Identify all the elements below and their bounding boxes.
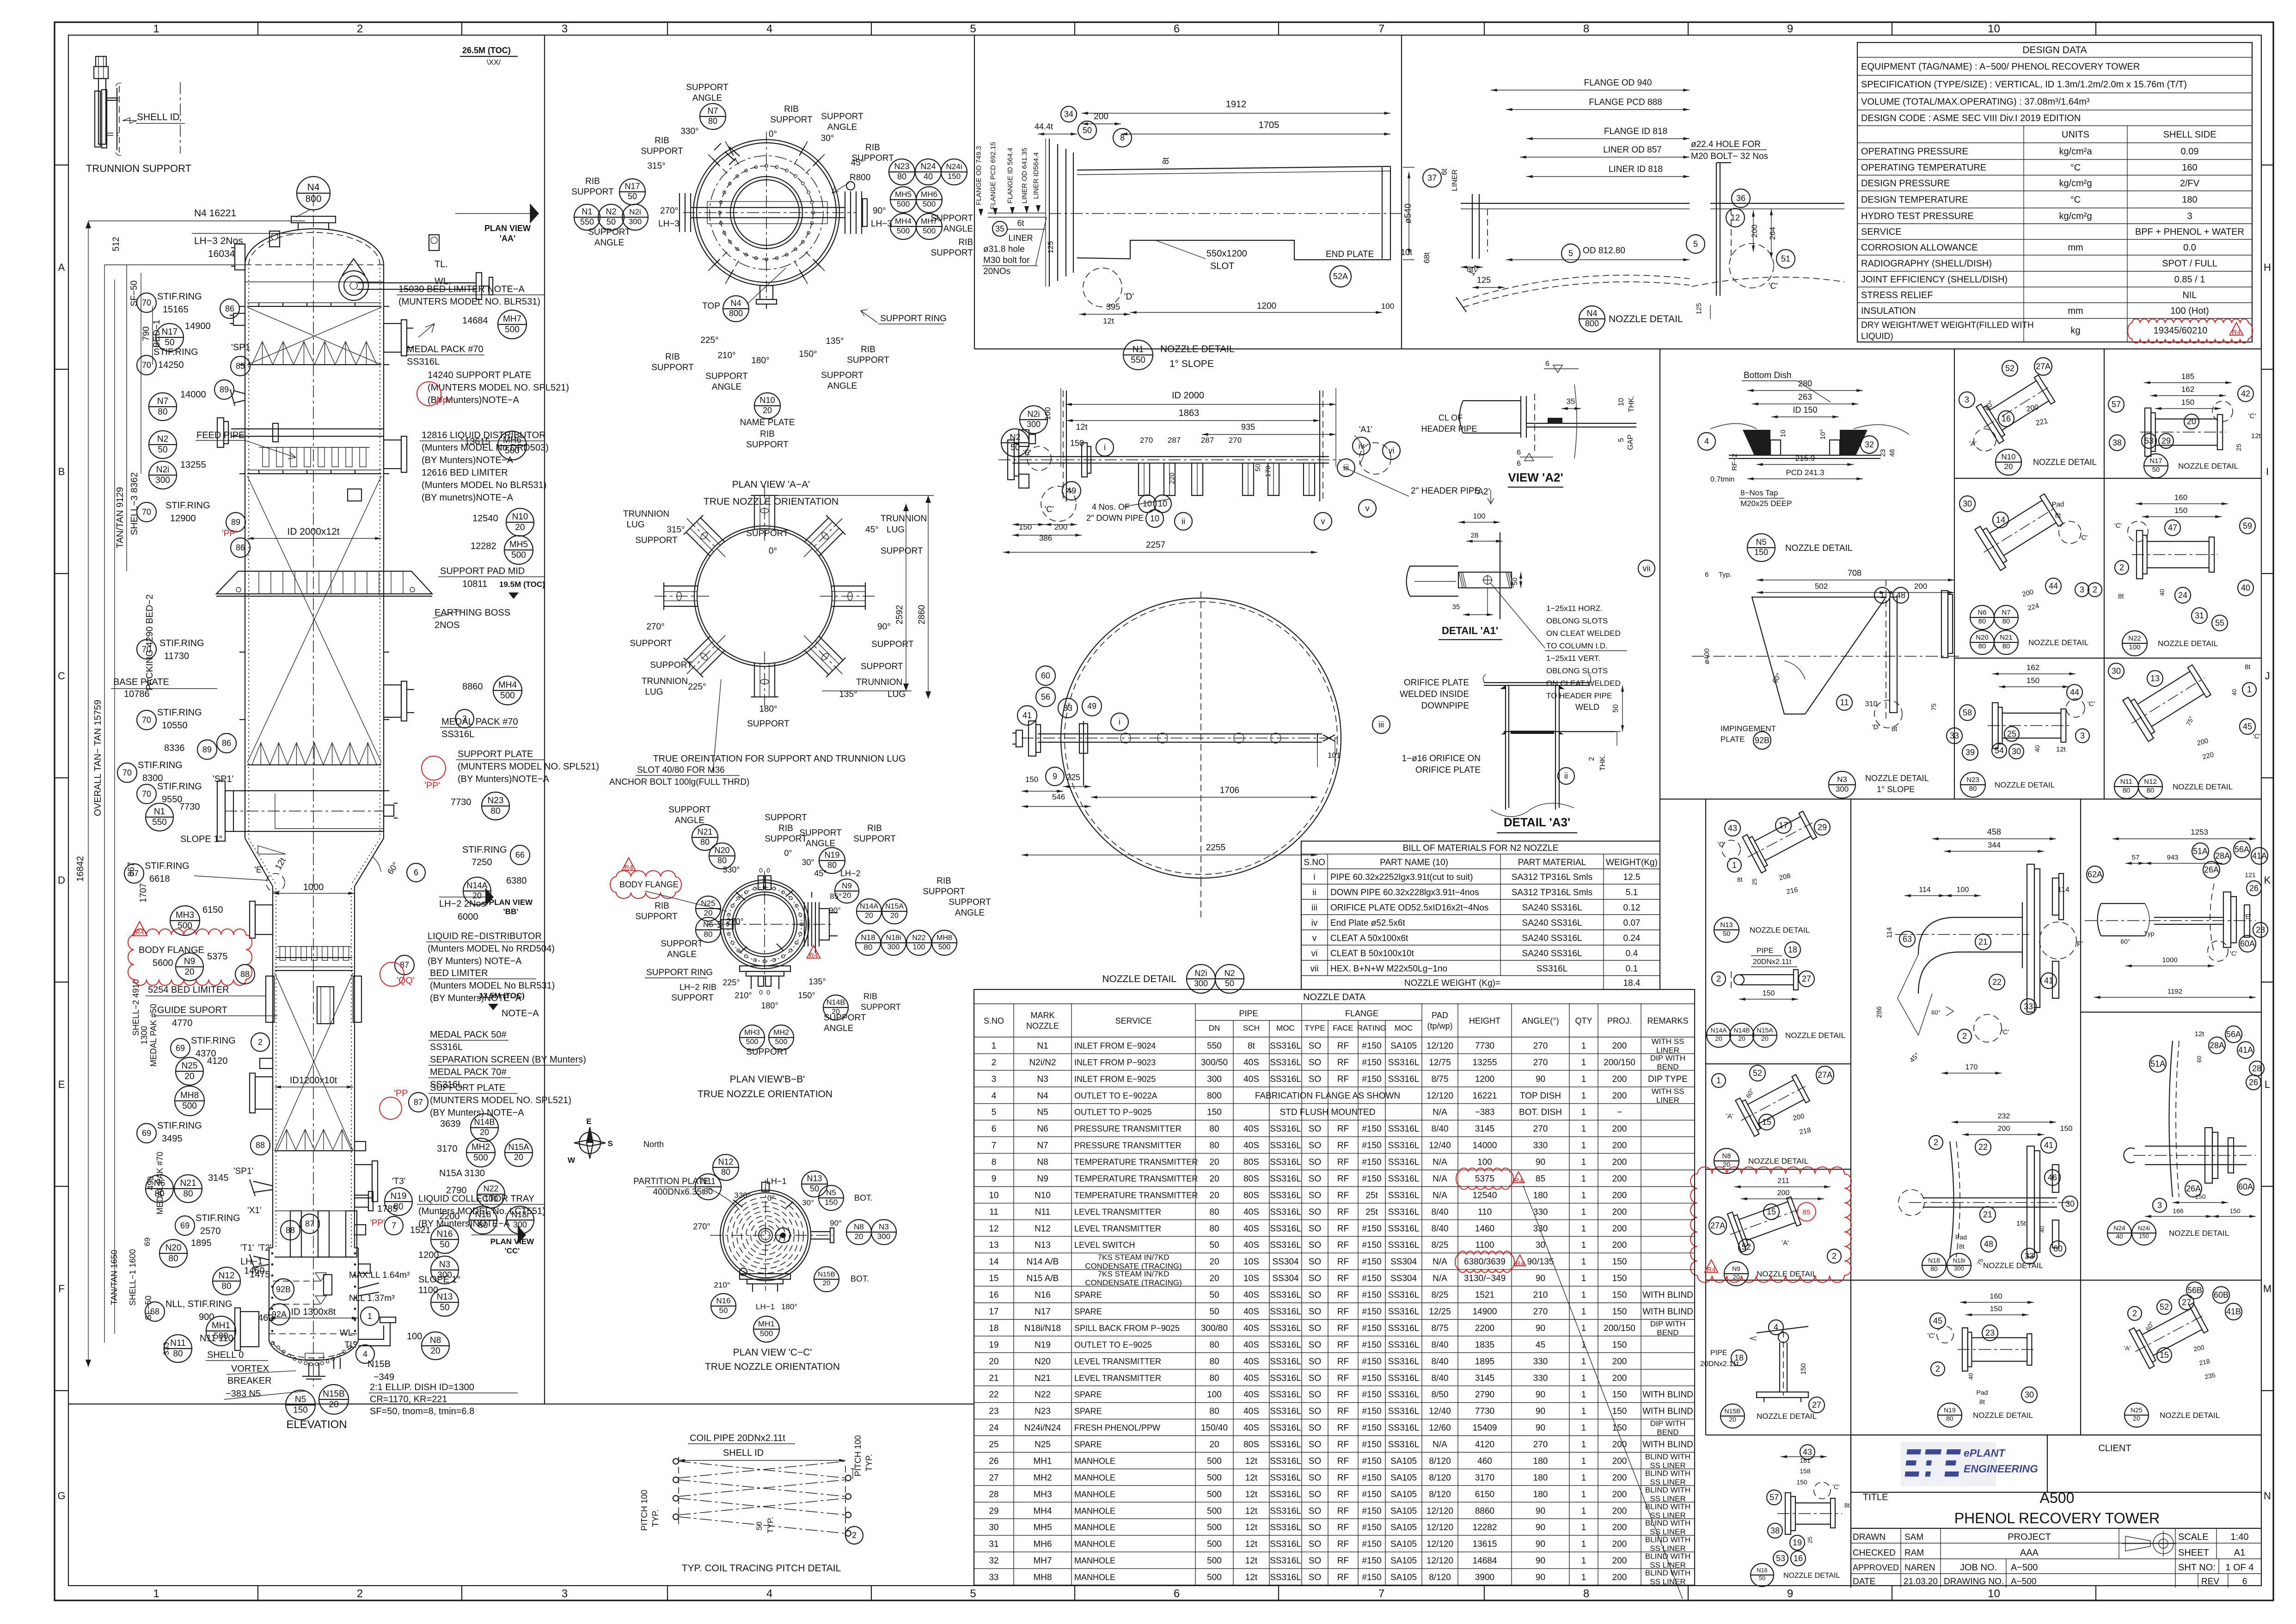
svg-text:vi: vi xyxy=(1389,446,1395,455)
svg-text:10786: 10786 xyxy=(124,689,150,699)
svg-text:B: B xyxy=(58,466,65,477)
svg-text:RADIOGRAPHY (SHELL/DISH): RADIOGRAPHY (SHELL/DISH) xyxy=(1861,259,1992,269)
svg-text:PLAN VIEW'B−B': PLAN VIEW'B−B' xyxy=(730,1074,805,1085)
svg-text:45: 45 xyxy=(1536,1340,1545,1350)
svg-text:180°: 180° xyxy=(761,1001,778,1010)
svg-text:N6: N6 xyxy=(1978,609,1986,617)
svg-text:WL.: WL. xyxy=(340,1328,355,1338)
svg-text:1835: 1835 xyxy=(1475,1340,1494,1350)
svg-text:2860: 2860 xyxy=(917,605,927,624)
svg-text:92B: 92B xyxy=(276,1285,291,1294)
svg-text:#150: #150 xyxy=(1362,1274,1381,1283)
svg-text:ANCHOR BOLT 100lg(FULL THRD: ANCHOR BOLT 100lg(FULL THRD) xyxy=(609,777,749,787)
svg-text:40: 40 xyxy=(2241,583,2250,592)
svg-text:(Munters MODEL No RRD504): (Munters MODEL No RRD504) xyxy=(428,944,555,954)
svg-text:0°: 0° xyxy=(769,129,777,139)
svg-text:3495: 3495 xyxy=(162,1134,183,1144)
svg-text:MH5: MH5 xyxy=(1033,1523,1052,1532)
plan view BB flag xyxy=(485,888,494,906)
svg-text:330°: 330° xyxy=(722,865,740,874)
svg-text:SUPPORT RING: SUPPORT RING xyxy=(646,968,713,977)
svg-text:8336: 8336 xyxy=(164,743,185,753)
svg-text:200: 200 xyxy=(1054,523,1067,531)
svg-text:160: 160 xyxy=(1990,1293,2002,1300)
svg-text:'SP1': 'SP1' xyxy=(233,1166,253,1176)
svg-text:'C': 'C' xyxy=(2253,733,2261,740)
svg-text:RIB: RIB xyxy=(937,876,951,886)
svg-text:SS316L: SS316L xyxy=(1388,1058,1420,1068)
svg-text:1000: 1000 xyxy=(2162,956,2177,964)
svg-text:End Plate ø52.5x6t: End Plate ø52.5x6t xyxy=(1330,918,1405,928)
svg-text:12/60: 12/60 xyxy=(1429,1423,1451,1433)
svg-text:'C': 'C' xyxy=(2080,534,2088,542)
plan A-A stub at 330 xyxy=(714,143,740,165)
svg-text:N4: N4 xyxy=(730,299,741,308)
svg-text:3: 3 xyxy=(2187,211,2192,221)
svg-text:RF: RF xyxy=(1337,1224,1349,1233)
svg-text:SUPPORT: SUPPORT xyxy=(747,719,790,729)
svg-text:26A: 26A xyxy=(2186,1184,2201,1193)
svg-text:#150: #150 xyxy=(1362,1058,1381,1068)
svg-text:200: 200 xyxy=(1612,1523,1627,1532)
svg-text:SA105: SA105 xyxy=(1390,1523,1417,1532)
svg-text:APPROVED: APPROVED xyxy=(1853,1563,1899,1572)
svg-text:NOZZLE DETAIL: NOZZLE DETAIL xyxy=(1785,1031,1845,1040)
svg-text:200: 200 xyxy=(1750,225,1759,238)
svg-text:NOZZLE: NOZZLE xyxy=(1026,1021,1059,1031)
svg-text:1: 1 xyxy=(1581,1290,1586,1300)
svg-text:N8: N8 xyxy=(430,1336,441,1345)
svg-text:'SP1: 'SP1 xyxy=(231,342,251,353)
svg-text:EARTHING BOSS: EARTHING BOSS xyxy=(435,608,510,618)
svg-text:9: 9 xyxy=(1787,23,1793,35)
svg-text:LH−1: LH−1 xyxy=(756,1302,775,1311)
svg-text:6: 6 xyxy=(1174,1587,1180,1600)
plan B-B bottom manhole stack xyxy=(740,966,790,971)
svg-text:SO: SO xyxy=(1309,1124,1321,1134)
lifting lug right on head xyxy=(429,235,439,250)
svg-text:0.12: 0.12 xyxy=(1623,903,1641,913)
svg-text:LINER: LINER xyxy=(1451,169,1459,191)
svg-text:SS316L: SS316L xyxy=(1388,1390,1420,1400)
svg-text:100: 100 xyxy=(1473,513,1486,520)
svg-text:SS316L: SS316L xyxy=(1270,1141,1301,1151)
svg-text:N20: N20 xyxy=(165,1243,182,1253)
svg-text:SUPPORT: SUPPORT xyxy=(853,834,896,844)
svg-text:100: 100 xyxy=(1043,407,1052,420)
svg-text:56A: 56A xyxy=(2226,1030,2241,1039)
svg-text:R4: R4 xyxy=(1515,1260,1524,1268)
svg-text:40: 40 xyxy=(2039,1226,2045,1233)
svg-text:500: 500 xyxy=(897,226,910,235)
svg-text:SUPPORT: SUPPORT xyxy=(650,660,692,670)
manhole MH8 left xyxy=(255,1077,273,1109)
svg-text:N17: N17 xyxy=(2149,457,2162,465)
trunnion support beam 135deg xyxy=(804,650,828,674)
svg-text:STIF.RING: STIF.RING xyxy=(157,708,202,718)
svg-text:1: 1 xyxy=(1581,1490,1586,1499)
svg-text:Typ: Typ xyxy=(2144,930,2155,937)
svg-text:1: 1 xyxy=(1581,1523,1586,1532)
svg-text:200: 200 xyxy=(1612,1473,1627,1483)
svg-text:'C': 'C' xyxy=(2114,522,2122,530)
svg-text:1−ø16 ORIFICE ON: 1−ø16 ORIFICE ON xyxy=(1402,754,1481,763)
svg-text:0.85 / 1: 0.85 / 1 xyxy=(2174,275,2205,285)
svg-text:WELD: WELD xyxy=(1575,702,1599,712)
svg-text:SO: SO xyxy=(1309,1539,1321,1549)
svg-text:27A: 27A xyxy=(1710,1221,1725,1230)
svg-text:14240 SUPPORT PLATE: 14240 SUPPORT PLATE xyxy=(428,370,532,380)
svg-text:80: 80 xyxy=(1209,1407,1219,1416)
svg-text:SUPPORT: SUPPORT xyxy=(671,993,714,1003)
svg-text:MH4: MH4 xyxy=(895,217,912,226)
svg-text:N25: N25 xyxy=(1035,1440,1051,1450)
svg-text:3: 3 xyxy=(2157,1201,2162,1210)
svg-text:N18: N18 xyxy=(1928,1257,1940,1264)
svg-text:N23: N23 xyxy=(1966,776,1979,784)
svg-text:80: 80 xyxy=(173,1349,183,1359)
cell N10 detail xyxy=(1972,368,2061,446)
svg-text:460: 460 xyxy=(1477,1457,1492,1466)
svg-text:SUPPORT: SUPPORT xyxy=(746,440,789,450)
svg-text:N12: N12 xyxy=(718,1157,733,1166)
svg-text:N/A: N/A xyxy=(1433,1108,1447,1117)
svg-text:6: 6 xyxy=(992,1124,997,1134)
svg-text:N3: N3 xyxy=(439,1260,450,1270)
svg-text:500: 500 xyxy=(897,200,910,208)
svg-text:TEMPERATURE TRANSMITTER: TEMPERATURE TRANSMITTER xyxy=(1074,1158,1198,1167)
svg-text:SUPPORT: SUPPORT xyxy=(661,939,703,949)
svg-text:40: 40 xyxy=(1967,1373,1974,1380)
svg-text:8/40: 8/40 xyxy=(1432,1124,1449,1134)
svg-text:BOT.: BOT. xyxy=(851,1274,869,1283)
svg-text:A−500: A−500 xyxy=(2011,1577,2036,1587)
svg-text:OUTLET TO E−9025: OUTLET TO E−9025 xyxy=(1074,1340,1152,1349)
svg-text:MH6: MH6 xyxy=(1033,1539,1052,1549)
svg-text:SO: SO xyxy=(1309,1523,1321,1532)
svg-text:ANGLE: ANGLE xyxy=(692,93,722,103)
svg-text:40S: 40S xyxy=(1243,1357,1259,1367)
svg-text:OVERALL TAN− TAN 15759: OVERALL TAN− TAN 15759 xyxy=(93,700,103,816)
svg-text:SF−50: SF−50 xyxy=(129,281,139,307)
svg-text:53: 53 xyxy=(2144,436,2154,446)
svg-text:CORROSION ALLOWANCE: CORROSION ALLOWANCE xyxy=(1861,243,1978,253)
svg-text:158: 158 xyxy=(1800,1467,1811,1475)
svg-text:135°: 135° xyxy=(826,336,844,346)
svg-text:28: 28 xyxy=(2256,925,2265,934)
svg-text:N19: N19 xyxy=(1944,1406,1956,1414)
svg-text:20: 20 xyxy=(1209,1440,1219,1450)
svg-text:STIF.RING: STIF.RING xyxy=(165,501,210,511)
svg-text:180: 180 xyxy=(1533,1473,1548,1483)
svg-text:N7: N7 xyxy=(157,397,168,406)
svg-text:8860: 8860 xyxy=(1475,1506,1494,1516)
svg-text:mm: mm xyxy=(2068,243,2083,253)
svg-text:80S: 80S xyxy=(1243,1174,1259,1184)
svg-text:45°: 45° xyxy=(865,525,879,535)
svg-text:20: 20 xyxy=(763,406,772,415)
svg-text:53: 53 xyxy=(1776,1554,1785,1563)
svg-text:RF: RF xyxy=(1337,1307,1349,1317)
svg-text:180: 180 xyxy=(2182,195,2197,205)
svg-text:85: 85 xyxy=(1536,1174,1545,1184)
svg-text:PLAN VIEW 'C−C': PLAN VIEW 'C−C' xyxy=(733,1347,812,1358)
svg-text:2: 2 xyxy=(992,1058,997,1068)
svg-text:185: 185 xyxy=(2181,372,2194,381)
svg-text:STIF.RING: STIF.RING xyxy=(157,781,202,792)
N1 left flange stack xyxy=(1049,139,1050,287)
svg-text:#150: #150 xyxy=(1362,1440,1381,1450)
svg-text:90: 90 xyxy=(1536,1324,1545,1333)
svg-text:70: 70 xyxy=(142,789,151,799)
svg-text:24: 24 xyxy=(2178,591,2187,600)
dim ID 1300x8t xyxy=(269,1318,358,1319)
svg-text:30: 30 xyxy=(2112,666,2121,676)
svg-text:LINER ID564.4: LINER ID564.4 xyxy=(1032,153,1040,199)
svg-text:'AA': 'AA' xyxy=(500,234,516,243)
svg-text:943: 943 xyxy=(2167,854,2178,861)
svg-text:68: 68 xyxy=(150,1307,159,1316)
svg-text:5600: 5600 xyxy=(153,958,173,968)
svg-text:2: 2 xyxy=(1934,1138,1938,1147)
svg-text:N2i: N2i xyxy=(156,465,170,475)
svg-text:SUPPORT PAD MID: SUPPORT PAD MID xyxy=(440,566,525,576)
svg-text:(BY Munters) NOTE−A: (BY Munters) NOTE−A xyxy=(428,956,522,966)
svg-text:86: 86 xyxy=(236,543,245,552)
svg-text:N8: N8 xyxy=(854,1222,864,1231)
svg-text:CLIENT: CLIENT xyxy=(2098,1443,2131,1453)
svg-text:200: 200 xyxy=(1612,1041,1627,1051)
svg-text:LINER: LINER xyxy=(1008,233,1033,243)
svg-text:PIPE: PIPE xyxy=(1710,1349,1727,1357)
svg-text:19.5M (TOC): 19.5M (TOC) xyxy=(499,580,545,589)
svg-text:26: 26 xyxy=(989,1457,998,1466)
svg-text:8: 8 xyxy=(1583,1587,1589,1600)
svg-text:BLIND WITH: BLIND WITH xyxy=(1645,1552,1690,1561)
svg-text:N2i: N2i xyxy=(629,208,641,216)
svg-text:270: 270 xyxy=(1533,1440,1548,1450)
svg-text:29: 29 xyxy=(2161,436,2171,446)
bottom nozzle N5 stub xyxy=(308,1362,309,1376)
svg-text:SUPPORT PLATE: SUPPORT PLATE xyxy=(458,749,533,759)
ePlant Engineering logo xyxy=(1901,1442,1996,1486)
svg-text:N8: N8 xyxy=(1722,1152,1731,1160)
svg-text:26A: 26A xyxy=(2204,865,2219,874)
N2 wall sections xyxy=(1066,391,1067,501)
svg-text:MH3: MH3 xyxy=(744,1029,760,1037)
lifting lug LH-3 left on head xyxy=(269,231,280,247)
svg-text:150: 150 xyxy=(2229,1207,2241,1215)
svg-text:SO: SO xyxy=(1309,1556,1321,1566)
svg-text:15: 15 xyxy=(989,1274,998,1283)
svg-text:NOZZLE DETAIL: NOZZLE DETAIL xyxy=(2158,639,2218,648)
svg-text:SO: SO xyxy=(1309,1440,1321,1450)
svg-text:5: 5 xyxy=(1617,438,1625,442)
svg-text:N/A: N/A xyxy=(1433,1158,1447,1167)
svg-text:MANHOLE: MANHOLE xyxy=(1074,1457,1115,1466)
svg-text:MANHOLE: MANHOLE xyxy=(1074,1506,1115,1515)
red cloud body flange at B-B xyxy=(610,871,681,898)
svg-text:15030 BED LIMITER NOTE−A: 15030 BED LIMITER NOTE−A xyxy=(398,284,525,294)
svg-text:NOZZLE DETAIL: NOZZLE DETAIL xyxy=(2033,458,2097,467)
svg-text:30: 30 xyxy=(1963,499,1972,508)
svg-text:REV: REV xyxy=(2201,1577,2219,1587)
svg-text:1: 1 xyxy=(1581,1224,1586,1233)
svg-text:150: 150 xyxy=(1612,1390,1627,1400)
svg-text:48: 48 xyxy=(1896,591,1905,600)
svg-text:ENGINEERING: ENGINEERING xyxy=(1964,1463,2038,1475)
svg-text:150: 150 xyxy=(1763,989,1775,997)
svg-text:8t: 8t xyxy=(2118,592,2124,600)
svg-text:kg/cm²a: kg/cm²a xyxy=(2059,147,2092,157)
lifting lug LH-1 left xyxy=(250,1254,269,1271)
svg-text:59: 59 xyxy=(2243,521,2252,531)
svg-text:40S: 40S xyxy=(1243,1141,1259,1151)
svg-text:8/120: 8/120 xyxy=(1429,1490,1451,1499)
svg-text:'PP': 'PP' xyxy=(370,1218,385,1228)
svg-text:PLAN VIEW: PLAN VIEW xyxy=(490,1237,534,1246)
svg-text:RF: RF xyxy=(1337,1556,1349,1566)
svg-text:1895: 1895 xyxy=(1475,1357,1494,1367)
svg-text:NIL: NIL xyxy=(2182,290,2197,300)
svg-text:CLEAT A 50x100x6t: CLEAT A 50x100x6t xyxy=(1330,934,1408,943)
svg-text:5: 5 xyxy=(970,1587,976,1600)
svg-text:BEND: BEND xyxy=(1657,1428,1678,1437)
svg-text:'X1': 'X1' xyxy=(247,1206,262,1215)
svg-text:SLOPE 1°: SLOPE 1° xyxy=(180,834,222,844)
svg-text:MH4: MH4 xyxy=(1033,1506,1052,1516)
svg-text:90: 90 xyxy=(1536,1423,1545,1433)
svg-text:(tp/wp): (tp/wp) xyxy=(1427,1021,1452,1031)
svg-text:2NOS: 2NOS xyxy=(435,620,459,630)
svg-text:12900: 12900 xyxy=(170,513,196,524)
svg-text:BLIND WITH: BLIND WITH xyxy=(1645,1569,1690,1577)
svg-text:15: 15 xyxy=(2160,1350,2169,1360)
svg-text:90: 90 xyxy=(1536,1158,1545,1167)
svg-text:2: 2 xyxy=(357,1587,363,1600)
nozzle stub N17 left xyxy=(233,313,245,325)
cell N18 elbow detail xyxy=(1932,838,2056,839)
svg-text:INLET FROM P−9023: INLET FROM P−9023 xyxy=(1074,1058,1156,1067)
svg-text:80: 80 xyxy=(2002,617,2010,625)
svg-text:16: 16 xyxy=(989,1290,998,1300)
svg-text:SO: SO xyxy=(1309,1041,1321,1051)
svg-text:2/FV: 2/FV xyxy=(2180,178,2200,189)
svg-text:'A': 'A' xyxy=(1782,1239,1789,1247)
svg-text:3: 3 xyxy=(2080,731,2085,740)
upper big cross bracing xyxy=(247,476,381,763)
svg-text:46: 46 xyxy=(2048,1173,2057,1182)
svg-text:N/A: N/A xyxy=(1433,1191,1447,1200)
cell N19 detail xyxy=(1960,1302,2034,1303)
svg-text:END PLATE: END PLATE xyxy=(1326,250,1374,259)
svg-text:PLATE: PLATE xyxy=(1720,735,1745,744)
plan view C-C xyxy=(720,1190,811,1281)
svg-text:N15B: N15B xyxy=(818,1270,835,1278)
svg-text:10: 10 xyxy=(989,1191,998,1200)
svg-text:MEDAL PACK 50#: MEDAL PACK 50# xyxy=(430,1030,507,1040)
svg-text:90/135: 90/135 xyxy=(1527,1257,1554,1267)
manhole MH6 right xyxy=(384,440,401,469)
svg-text:150: 150 xyxy=(1207,1108,1222,1117)
svg-text:3900: 3900 xyxy=(1475,1573,1494,1582)
svg-text:20: 20 xyxy=(1209,1257,1219,1267)
svg-text:1: 1 xyxy=(153,1587,159,1600)
svg-text:N10: N10 xyxy=(2001,452,2015,461)
cell N25 detail xyxy=(2186,1282,2203,1299)
svg-text:iv: iv xyxy=(1311,918,1318,928)
svg-text:NOZZLE DETAIL: NOZZLE DETAIL xyxy=(1750,926,1810,934)
svg-text:20: 20 xyxy=(515,523,525,532)
svg-text:N4: N4 xyxy=(1037,1091,1048,1101)
svg-text:150: 150 xyxy=(1019,523,1032,531)
svg-text:27: 27 xyxy=(1802,974,1811,983)
svg-text:20: 20 xyxy=(1738,1035,1745,1042)
svg-text:SS316L: SS316L xyxy=(1270,1457,1301,1466)
svg-text:200: 200 xyxy=(1612,1174,1627,1184)
svg-text:WITH SS: WITH SS xyxy=(1652,1037,1684,1046)
svg-text:SHT NO:: SHT NO: xyxy=(2178,1563,2216,1573)
svg-text:M20 BOLT− 32 Nos: M20 BOLT− 32 Nos xyxy=(1691,152,1768,161)
svg-text:DETAIL 'A3': DETAIL 'A3' xyxy=(1504,815,1570,829)
svg-text:44: 44 xyxy=(2049,581,2058,591)
svg-text:BPF + PHENOL + WATER: BPF + PHENOL + WATER xyxy=(2135,227,2244,237)
svg-text:DATE: DATE xyxy=(1853,1577,1875,1587)
svg-text:SS LINER: SS LINER xyxy=(1650,1577,1685,1586)
svg-text:315°: 315° xyxy=(647,161,665,171)
svg-text:50: 50 xyxy=(440,1240,449,1250)
plan A-A bottom stub and name plate xyxy=(760,286,773,299)
cell impingement plate detail xyxy=(1757,580,1954,580)
svg-text:50: 50 xyxy=(158,445,167,455)
svg-text:DETAIL 'A1': DETAIL 'A1' xyxy=(1442,625,1498,636)
svg-text:80: 80 xyxy=(897,172,906,181)
svg-text:800: 800 xyxy=(1585,319,1599,328)
svg-text:°C: °C xyxy=(2070,163,2081,173)
svg-text:SUPPORT: SUPPORT xyxy=(824,1013,866,1023)
svg-text:N1: N1 xyxy=(1133,345,1144,354)
svg-text:NAREN: NAREN xyxy=(1904,1563,1935,1573)
svg-text:A−500: A−500 xyxy=(2011,1563,2038,1573)
svg-text:10S: 10S xyxy=(1243,1274,1259,1283)
svg-text:N25: N25 xyxy=(701,899,715,908)
svg-text:546: 546 xyxy=(1052,793,1065,801)
svg-text:N11: N11 xyxy=(170,1338,185,1348)
svg-text:mm: mm xyxy=(2068,306,2083,316)
svg-text:39: 39 xyxy=(1965,748,1975,757)
svg-text:TRUNNION: TRUNNION xyxy=(623,509,669,519)
vortex breaker xyxy=(305,1353,324,1360)
svg-text:SS316L: SS316L xyxy=(1388,1357,1420,1367)
svg-text:North: North xyxy=(643,1140,664,1149)
svg-text:19: 19 xyxy=(1793,1538,1802,1547)
bed limiter 12616 xyxy=(247,473,381,474)
svg-text:N1: N1 xyxy=(582,207,592,216)
svg-text:550: 550 xyxy=(1131,355,1145,365)
liquid collector tray channels xyxy=(290,1211,301,1257)
svg-text:N2: N2 xyxy=(157,434,168,444)
svg-text:MANHOLE: MANHOLE xyxy=(1074,1573,1115,1582)
nozzle N8 right elbow xyxy=(358,1323,390,1346)
svg-text:−: − xyxy=(1617,1108,1622,1117)
svg-text:1 OF 4: 1 OF 4 xyxy=(2225,1563,2253,1573)
svg-text:8t: 8t xyxy=(1959,1243,1965,1250)
svg-text:N12: N12 xyxy=(2144,778,2157,786)
svg-text:SO: SO xyxy=(1309,1290,1321,1300)
svg-text:20: 20 xyxy=(2187,417,2196,426)
svg-text:ø22.4 HOLE FOR: ø22.4 HOLE FOR xyxy=(1691,140,1761,149)
svg-text:14250: 14250 xyxy=(158,360,184,370)
